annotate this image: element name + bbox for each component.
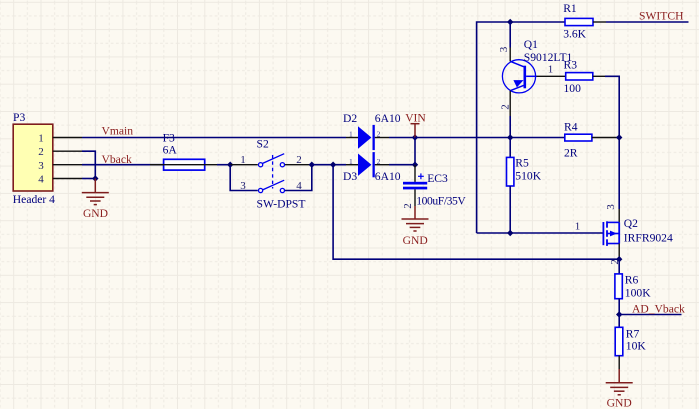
junction VIN lower: [412, 162, 418, 168]
wire VIN to R4: [415, 137, 565, 139]
svg-text:R3: R3: [564, 58, 578, 71]
svg-text:R5: R5: [515, 157, 529, 170]
diode D3: [346, 152, 389, 177]
svg-text:2R: 2R: [564, 146, 578, 159]
ground GND power port bottom right: [606, 369, 633, 395]
junction top rail Q1 emitter: [507, 19, 513, 25]
P3 pin 3: [38, 160, 82, 172]
wire Vback from P3 pin3 to fuse F3: [82, 164, 164, 166]
junction Vback down branch: [330, 162, 336, 168]
junction Q2 source bottom: [616, 256, 622, 262]
svg-text:1: 1: [38, 132, 44, 144]
svg-text:R1: R1: [563, 2, 577, 15]
svg-text:1: 1: [240, 154, 246, 166]
svg-text:AD_Vback: AD_Vback: [632, 302, 685, 315]
svg-text:2: 2: [377, 157, 381, 166]
capacitor EC3: [403, 165, 427, 206]
transistor Q1: [502, 22, 565, 138]
wire AD_Vback stub: [619, 314, 681, 316]
svg-text:GND: GND: [403, 234, 428, 247]
svg-text:SWITCH: SWITCH: [639, 9, 684, 22]
wire D2 cathode to VIN node: [389, 137, 415, 139]
svg-text:Header 4: Header 4: [13, 193, 55, 206]
svg-text:R6: R6: [625, 273, 639, 286]
svg-text:Q1: Q1: [524, 38, 538, 51]
svg-text:1: 1: [575, 220, 581, 232]
svg-text:D3: D3: [343, 170, 357, 183]
svg-text:R4: R4: [564, 120, 578, 133]
wire P3 pin4 to GND branch: [82, 178, 95, 180]
svg-text:6A: 6A: [163, 144, 178, 157]
svg-text:4: 4: [38, 174, 44, 186]
P3 pin 4: [38, 174, 82, 186]
svg-text:S2: S2: [257, 137, 269, 150]
junction P3 pins 2+4: [92, 175, 98, 181]
wire gate line to Q2: [477, 232, 603, 234]
connector P3 body: [13, 124, 53, 191]
svg-text:1: 1: [349, 157, 353, 166]
junction Q1 collector VIN: [507, 134, 513, 140]
junction S2 input split: [227, 162, 233, 168]
svg-text:VIN: VIN: [405, 112, 426, 125]
svg-text:3.6K: 3.6K: [563, 28, 586, 41]
svg-text:6A10: 6A10: [375, 112, 401, 125]
junction R5 bottom gate line: [507, 230, 513, 236]
svg-text:F3: F3: [163, 131, 175, 144]
ground GND power port under P3: [82, 179, 109, 205]
junction S2 output merge: [309, 162, 315, 168]
resistor R3: [566, 73, 605, 80]
svg-text:3: 3: [38, 160, 44, 172]
svg-text:Vmain: Vmain: [102, 124, 134, 137]
wire D3 cathode to lower VIN node: [389, 164, 415, 166]
svg-text:2: 2: [402, 203, 414, 209]
svg-text:2: 2: [377, 130, 381, 139]
svg-text:2: 2: [296, 154, 302, 166]
svg-text:GND: GND: [607, 397, 632, 409]
resistor R6: [615, 259, 622, 314]
junction AD_Vback node: [616, 311, 622, 317]
power port VIN: [411, 124, 420, 138]
junction right rail VIN: [616, 134, 622, 140]
fuse F3: [150, 159, 217, 170]
wire R1 to SWITCH: [606, 21, 689, 23]
svg-text:SW-DPST: SW-DPST: [257, 198, 306, 211]
svg-text:1: 1: [349, 130, 353, 139]
svg-text:1: 1: [548, 64, 554, 76]
wire Vback down and across to Q2 source: [333, 165, 619, 260]
svg-text:100uF/35V: 100uF/35V: [416, 194, 466, 207]
P3 pin 2: [38, 146, 82, 158]
svg-text:2: 2: [38, 146, 44, 158]
svg-text:10K: 10K: [626, 340, 647, 353]
wire top rail from left vertical through R1: [477, 22, 565, 233]
diode D2: [346, 125, 389, 150]
P3 pin 1: [38, 132, 82, 144]
wire F3 to S2: [217, 164, 230, 166]
svg-text:D2: D2: [343, 112, 357, 125]
svg-text:3: 3: [498, 46, 510, 52]
wire VIN vertical link: [414, 138, 416, 165]
wire S2 to D3: [312, 164, 346, 166]
svg-text:Vback: Vback: [102, 153, 132, 166]
wire Vmain from P3 pin1 to D2: [82, 137, 346, 139]
switch S2 SW-DPST: [230, 154, 312, 193]
svg-text:6A10: 6A10: [375, 170, 401, 183]
resistor R4: [565, 134, 619, 141]
svg-text:100K: 100K: [625, 286, 651, 299]
svg-text:EC3: EC3: [427, 172, 448, 185]
svg-text:Q2: Q2: [624, 217, 638, 230]
svg-text:4: 4: [296, 180, 302, 192]
ground GND power port under EC3: [402, 206, 429, 231]
svg-text:3: 3: [240, 180, 246, 192]
junction VIN upper: [412, 134, 418, 140]
wire P3 pin2 to GND branch: [82, 151, 95, 178]
svg-text:100: 100: [564, 82, 582, 95]
svg-text:2: 2: [499, 104, 511, 110]
transistor Q2: [603, 221, 619, 259]
resistor R5: [507, 138, 514, 234]
svg-text:3: 3: [605, 204, 617, 210]
resistor R7: [615, 315, 623, 370]
svg-text:P3: P3: [13, 111, 25, 124]
wire R3 to right vertical rail: [605, 76, 619, 209]
svg-text:IRFR9024: IRFR9024: [624, 231, 673, 244]
svg-text:510K: 510K: [515, 169, 541, 182]
resistor R1: [565, 18, 606, 25]
svg-text:GND: GND: [83, 207, 108, 220]
